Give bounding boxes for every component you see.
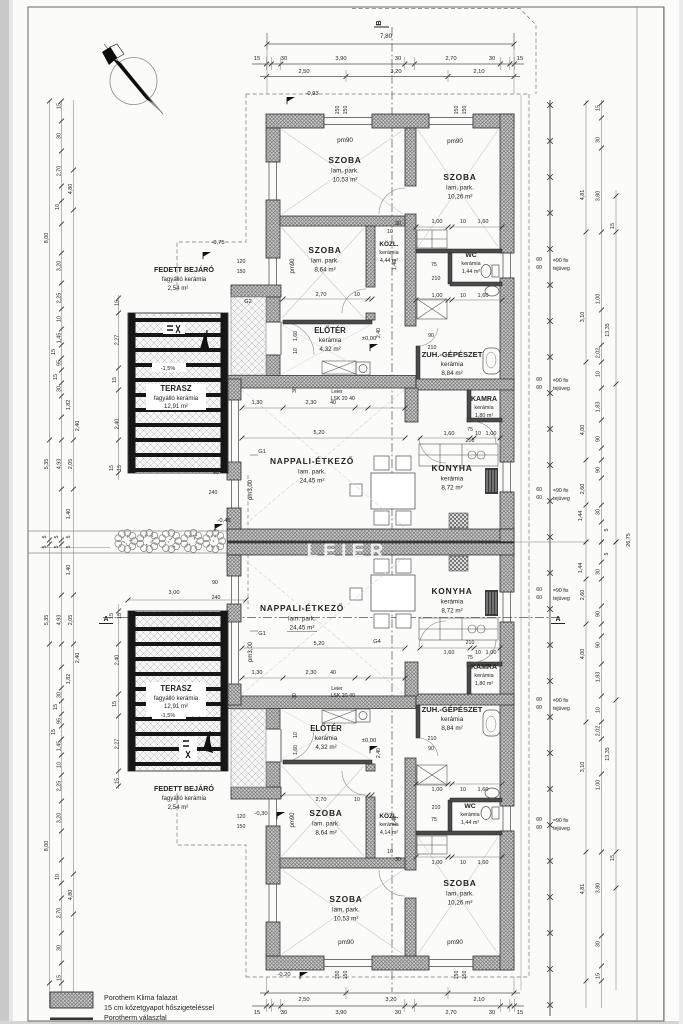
terrace upper step marks [163,323,185,334]
svg-text:30: 30 [489,1010,495,1016]
svg-text:5: 5 [66,536,72,539]
svg-text:1,30: 1,30 [252,670,263,676]
svg-text:TERASZ: TERASZ [160,384,191,393]
dim szoba2 width lower [283,794,372,796]
svg-text:1,00: 1,00 [432,219,443,225]
svg-text:1,00: 1,00 [432,787,443,793]
svg-text:150: 150 [335,106,341,115]
svg-text:-0,45: -0,45 [217,518,230,524]
svg-text:pm3,00: pm3,00 [248,641,254,662]
dim wc row1 upper [416,226,502,228]
svg-text:-0,20: -0,20 [277,972,290,978]
svg-text:2,10: 2,10 [473,69,484,75]
svg-text:2,70: 2,70 [316,797,327,803]
svg-text:30: 30 [596,509,602,515]
covered entry lower floor hatch [231,709,266,787]
svg-text:150: 150 [454,971,460,980]
svg-text:10: 10 [475,650,481,656]
svg-text:kerámia: kerámia [461,261,480,267]
svg-text:150: 150 [343,106,349,115]
svg-text:90: 90 [596,436,602,442]
svg-text:15: 15 [51,349,57,355]
svg-text:60: 60 [536,495,542,501]
svg-text:1,44 m²: 1,44 m² [462,269,480,275]
party wall centre line [227,541,514,543]
svg-text:3,20: 3,20 [390,69,401,75]
north arrow needle [104,44,163,114]
svg-text:150: 150 [343,971,349,980]
svg-text:5,20: 5,20 [314,641,325,647]
dim nappali row upper [242,407,405,409]
svg-text:90: 90 [212,580,218,586]
scan edge strip bottom [0,1021,683,1024]
svg-text:120: 120 [237,259,246,265]
right margin line 1 [636,7,638,1021]
terrace lower slope [152,710,186,719]
svg-text:kerámia: kerámia [319,337,342,344]
svg-text:15 cm kőzetgyapot hőszigetelés: 15 cm kőzetgyapot hőszigeteléssel [104,1004,214,1012]
svg-text:210: 210 [432,276,441,282]
svg-text:4,14 m²: 4,14 m² [380,830,398,836]
dim wc row2 upper [416,299,502,301]
svg-text:10: 10 [387,849,393,855]
svg-text:15: 15 [109,613,115,619]
svg-text:210: 210 [432,805,441,811]
svg-text:15: 15 [57,975,63,981]
svg-text:2,05: 2,05 [68,459,74,470]
tree bush 1 [115,530,138,553]
legend swatch valaszfal [50,1018,93,1021]
svg-text:15: 15 [596,105,602,111]
tree bush 5 [203,530,226,553]
svg-text:10: 10 [55,204,61,210]
dimension chain bottom row1 [260,992,520,994]
svg-text:SZOBA: SZOBA [308,245,341,255]
svg-text:1,82: 1,82 [66,400,72,411]
svg-text:2,02: 2,02 [596,348,602,359]
svg-text:kerámia: kerámia [460,812,479,818]
svg-text:G2: G2 [244,299,251,305]
svg-text:150: 150 [462,971,468,980]
svg-text:=90 fix: =90 fix [553,258,569,264]
right dimension line 3 [615,190,617,990]
svg-text:90: 90 [428,333,434,339]
svg-text:13,35: 13,35 [605,747,611,761]
svg-text:3,90: 3,90 [335,56,346,62]
svg-text:60: 60 [536,265,542,271]
svg-text:4,93: 4,93 [57,615,63,626]
svg-text:3,90: 3,90 [335,1010,346,1016]
svg-text:1,45: 1,45 [57,741,63,752]
svg-text:=90 fix: =90 fix [553,588,569,594]
svg-text:KAMRA: KAMRA [471,664,497,671]
svg-text:7,80: 7,80 [380,33,393,40]
svg-text:tejüveg: tejüveg [553,706,570,712]
svg-text:15: 15 [117,465,123,471]
svg-text:kerámia: kerámia [441,476,464,483]
svg-text:10,53 m²: 10,53 m² [333,177,358,184]
svg-text:75: 75 [467,655,473,661]
svg-text:12,91 m²: 12,91 m² [164,403,188,410]
svg-text:4,80: 4,80 [68,890,74,901]
svg-text:10,53 m²: 10,53 m² [334,916,359,923]
svg-text:fagyálló kerámia: fagyálló kerámia [162,276,207,283]
svg-text:1,30: 1,30 [252,400,263,406]
svg-text:5: 5 [54,536,60,539]
svg-text:A: A [555,616,560,623]
svg-text:1,45: 1,45 [57,333,63,344]
svg-text:4,32 m²: 4,32 m² [319,346,340,353]
svg-text:2,25: 2,25 [57,781,63,792]
svg-text:1,40: 1,40 [392,260,398,270]
party axis line to fence [514,541,586,543]
svg-text:pm90: pm90 [447,939,463,946]
svg-text:2,40: 2,40 [376,328,382,338]
svg-text:2,70: 2,70 [57,166,63,177]
svg-text:8,64 m²: 8,64 m² [314,267,335,274]
terrace upper [128,313,228,473]
svg-text:2,27: 2,27 [115,335,121,346]
svg-text:10,26 m²: 10,26 m² [448,194,473,201]
svg-text:ZUH.-GÉPÉSZET: ZUH.-GÉPÉSZET [422,350,483,359]
svg-text:10: 10 [354,292,360,298]
svg-text:60: 60 [536,487,542,493]
svg-text:±0,00: ±0,00 [362,336,376,342]
svg-text:SZOBA: SZOBA [329,894,362,904]
svg-text:90: 90 [596,467,602,473]
svg-text:1,60: 1,60 [478,787,489,793]
terrace upper arrow [200,332,210,352]
svg-text:G4: G4 [373,639,380,645]
svg-text:1,80 m²: 1,80 m² [475,413,493,419]
svg-text:4,00: 4,00 [580,649,586,660]
left dimension baseline bottom [40,547,110,549]
svg-text:30: 30 [292,693,298,699]
tree bush 2 [137,530,160,553]
svg-text:1,40: 1,40 [66,509,72,520]
svg-text:40: 40 [349,693,355,699]
svg-text:lam. park.: lam. park. [332,907,360,914]
svg-text:3,20: 3,20 [57,813,63,824]
svg-text:=90 fix: =90 fix [553,378,569,384]
svg-text:210: 210 [428,345,437,351]
svg-text:120: 120 [237,814,246,820]
svg-text:15: 15 [115,300,121,306]
svg-text:tejüveg: tejüveg [553,826,570,832]
svg-text:10: 10 [460,293,466,299]
svg-text:15: 15 [53,374,59,380]
svg-text:-0,93: -0,93 [305,91,318,97]
svg-text:2,10: 2,10 [473,997,484,1003]
svg-text:KONYHA: KONYHA [431,463,472,473]
terrace dimension column upper [118,295,120,480]
svg-text:150: 150 [454,106,460,115]
svg-text:1,40: 1,40 [392,816,398,826]
svg-text:-1,5%: -1,5% [161,713,176,719]
svg-text:10: 10 [387,229,393,235]
svg-text:15: 15 [254,1010,260,1016]
svg-text:2,02: 2,02 [596,726,602,737]
scan edge strip left [0,0,9,1024]
terrace upper slope box [152,363,186,372]
svg-text:10: 10 [460,787,466,793]
svg-text:30: 30 [292,387,298,393]
property fence line right [549,100,551,1016]
svg-text:15: 15 [57,103,63,109]
left dimension line 1 [49,100,51,1008]
dim nappali 5.20 lower [242,647,405,649]
section line A-A horizontal [103,617,560,619]
svg-text:1,40: 1,40 [66,565,72,576]
svg-text:40: 40 [330,670,336,676]
svg-text:90: 90 [596,642,602,648]
svg-text:2,40: 2,40 [376,748,382,758]
upper dwelling unit geometry [227,114,514,555]
svg-text:1,00: 1,00 [596,780,602,791]
svg-text:2,70: 2,70 [445,1010,456,1016]
svg-text:1,00: 1,00 [486,431,497,437]
right dimension line 2 [601,100,603,1008]
svg-text:2,54 m²: 2,54 m² [168,804,189,811]
roof overhang outline dashed [246,93,529,95]
svg-text:3,10: 3,10 [580,762,586,773]
svg-text:10: 10 [55,874,61,880]
svg-text:2,50: 2,50 [298,69,309,75]
svg-text:4,81: 4,81 [580,190,586,201]
svg-text:2,30: 2,30 [306,670,317,676]
svg-text:90: 90 [213,470,219,476]
svg-text:10: 10 [460,860,466,866]
svg-text:60: 60 [536,377,542,383]
svg-text:pm90: pm90 [290,812,296,828]
svg-text:kerámia: kerámia [379,250,398,256]
svg-text:15: 15 [53,704,59,710]
svg-text:15: 15 [117,613,123,619]
svg-text:B: B [374,20,383,26]
svg-text:NAPPALI-ÉTKEZŐ: NAPPALI-ÉTKEZŐ [270,455,354,466]
svg-text:5: 5 [66,546,72,549]
svg-text:=90 fix: =90 fix [553,818,569,824]
svg-text:60: 60 [536,705,542,711]
svg-text:tejüveg: tejüveg [553,596,570,602]
svg-text:2,70: 2,70 [445,56,456,62]
terrace upper label box [146,384,206,410]
svg-text:15: 15 [517,1010,523,1016]
svg-text:15: 15 [51,729,57,735]
svg-text:30: 30 [395,1010,401,1016]
svg-text:2,30: 2,30 [306,400,317,406]
svg-text:kerámia: kerámia [474,673,493,679]
svg-text:75: 75 [431,262,437,268]
svg-text:8,72 m²: 8,72 m² [441,485,462,492]
svg-text:SZOBA: SZOBA [328,155,361,165]
svg-text:150: 150 [462,106,468,115]
dimension chain top row2 [260,76,520,78]
svg-text:1,60: 1,60 [478,219,489,225]
svg-text:TERASZ: TERASZ [160,684,191,693]
svg-text:-1,5%: -1,5% [161,366,176,372]
svg-text:3,10: 3,10 [580,312,586,323]
left dimension line 2 [61,100,63,1008]
svg-text:30: 30 [395,221,401,227]
svg-text:5: 5 [604,529,610,532]
svg-text:pm90: pm90 [338,939,354,946]
svg-text:4,00: 4,00 [580,425,586,436]
svg-text:13,35: 13,35 [605,323,611,337]
svg-text:ELŐTÉR: ELŐTÉR [314,326,346,335]
svg-text:ZUH.-GÉPÉSZET: ZUH.-GÉPÉSZET [422,705,483,714]
svg-text:10: 10 [293,732,299,738]
svg-text:5: 5 [42,536,48,539]
svg-text:1,00: 1,00 [486,650,497,656]
svg-text:15: 15 [254,56,260,62]
svg-text:30: 30 [281,56,287,62]
svg-text:60: 60 [536,697,542,703]
svg-text:1,44 m²: 1,44 m² [461,820,479,826]
svg-text:2,40: 2,40 [115,419,121,430]
lower dwelling unit geometry mirrored [227,529,514,970]
svg-text:210: 210 [466,438,475,444]
svg-text:4,81: 4,81 [580,884,586,895]
svg-text:4,32 m²: 4,32 m² [315,744,336,751]
svg-text:Leier: Leier [331,389,343,395]
gutter line right [520,95,522,990]
svg-text:KAMRA: KAMRA [471,396,497,403]
svg-text:30: 30 [57,945,63,951]
svg-text:lam. park.: lam. park. [446,891,474,898]
dim wc row2 lower [416,783,502,785]
svg-text:3,80: 3,80 [596,191,602,202]
svg-text:1,82: 1,82 [66,674,72,685]
scan edge strip right [679,0,683,1024]
extension lines top chain [266,57,268,70]
svg-text:A: A [103,616,108,623]
dim nappali 5.20 upper [242,437,405,439]
svg-text:8,00: 8,00 [44,233,50,244]
svg-text:90: 90 [428,746,434,752]
svg-text:12,91 m²: 12,91 m² [164,703,188,710]
svg-text:lam. park.: lam. park. [331,168,359,175]
right dimension ticks [599,101,604,106]
svg-text:2,05: 2,05 [68,615,74,626]
dim 3.00 lower [128,599,246,601]
svg-text:KÖZL.: KÖZL. [379,239,398,248]
svg-text:LSK 20: LSK 20 [330,693,347,699]
terrace dimension column lower [118,604,120,789]
svg-text:Leier: Leier [331,686,343,692]
svg-text:2,60: 2,60 [580,484,586,495]
svg-text:60: 60 [536,385,542,391]
svg-text:150: 150 [237,269,246,275]
svg-text:240: 240 [212,595,221,601]
svg-text:fagyálló kerámia: fagyálló kerámia [154,395,199,402]
svg-text:60: 60 [536,825,542,831]
right dimension line 1 [585,100,587,1008]
svg-text:G1: G1 [258,449,265,455]
dimension total 7.80 top [267,43,514,45]
svg-text:8,72 m²: 8,72 m² [441,608,462,615]
svg-text:90: 90 [596,611,602,617]
dim konyha row upper [420,437,500,439]
svg-text:5,35: 5,35 [44,615,50,626]
terrace lower step marks [179,737,197,761]
svg-text:2,40: 2,40 [75,653,81,664]
svg-text:1,80 m²: 1,80 m² [475,681,493,687]
svg-text:30: 30 [395,56,401,62]
svg-text:60: 60 [536,817,542,823]
svg-text:pm3,00: pm3,00 [248,479,254,500]
svg-text:lam. park.: lam. park. [288,616,316,623]
svg-text:SZOBA: SZOBA [309,808,342,818]
dim wc row1 lower [416,856,502,858]
dim szoba2 width upper [283,298,372,300]
svg-text:2,70: 2,70 [57,908,63,919]
svg-text:24,45 m²: 24,45 m² [290,625,315,632]
svg-text:8,00: 8,00 [44,841,50,852]
svg-text:pm90: pm90 [337,137,353,144]
svg-text:1,00: 1,00 [432,860,443,866]
svg-text:15: 15 [115,778,121,784]
svg-text:2,70: 2,70 [316,292,327,298]
svg-text:75: 75 [431,817,437,823]
svg-text:2,40: 2,40 [75,421,81,432]
left dimension ticks [59,99,64,104]
svg-text:5,35: 5,35 [44,459,50,470]
svg-text:pm90: pm90 [447,138,463,145]
svg-text:30: 30 [489,56,495,62]
svg-text:210: 210 [466,640,475,646]
svg-text:75: 75 [467,427,473,433]
svg-text:3,20: 3,20 [385,997,396,1003]
svg-text:kerámia: kerámia [441,716,464,723]
tree bush 4 [181,530,204,553]
planting strip line upper [28,530,227,532]
svg-text:1,00: 1,00 [432,293,443,299]
svg-text:tejüveg: tejüveg [553,386,570,392]
svg-text:2,25: 2,25 [57,293,63,304]
terrace lower arrow [203,733,213,753]
svg-text:210: 210 [428,736,437,742]
svg-text:1,83: 1,83 [596,672,602,683]
svg-text:kerámia: kerámia [315,735,338,742]
svg-text:1,60: 1,60 [478,293,489,299]
svg-text:40: 40 [349,396,355,402]
svg-text:Porothem Klima falazat: Porothem Klima falazat [104,994,177,1002]
terrace lower [128,611,228,771]
svg-text:G1: G1 [258,631,265,637]
svg-text:WC: WC [465,252,476,259]
svg-text:30: 30 [395,857,401,863]
svg-text:5,20: 5,20 [314,430,325,436]
right margin line 2 [663,7,665,1021]
terrace lower label box [146,682,206,716]
svg-text:5: 5 [604,553,610,556]
dim nappali row lower [242,677,405,679]
svg-text:60: 60 [536,257,542,263]
svg-text:-0,75: -0,75 [211,240,224,246]
svg-text:fagyálló kerámia: fagyálló kerámia [162,795,207,802]
svg-text:30: 30 [596,941,602,947]
left dimension line 3 [73,100,75,1008]
svg-text:8,84 m²: 8,84 m² [441,725,462,732]
svg-text:1,00: 1,00 [596,294,602,305]
svg-text:1,44: 1,44 [578,563,584,574]
svg-text:3,20: 3,20 [57,261,63,272]
svg-text:26,75: 26,75 [626,533,632,547]
svg-text:lam. park.: lam. park. [311,258,339,265]
svg-text:2,54 m²: 2,54 m² [168,285,189,292]
svg-text:10,26 m²: 10,26 m² [448,900,473,907]
